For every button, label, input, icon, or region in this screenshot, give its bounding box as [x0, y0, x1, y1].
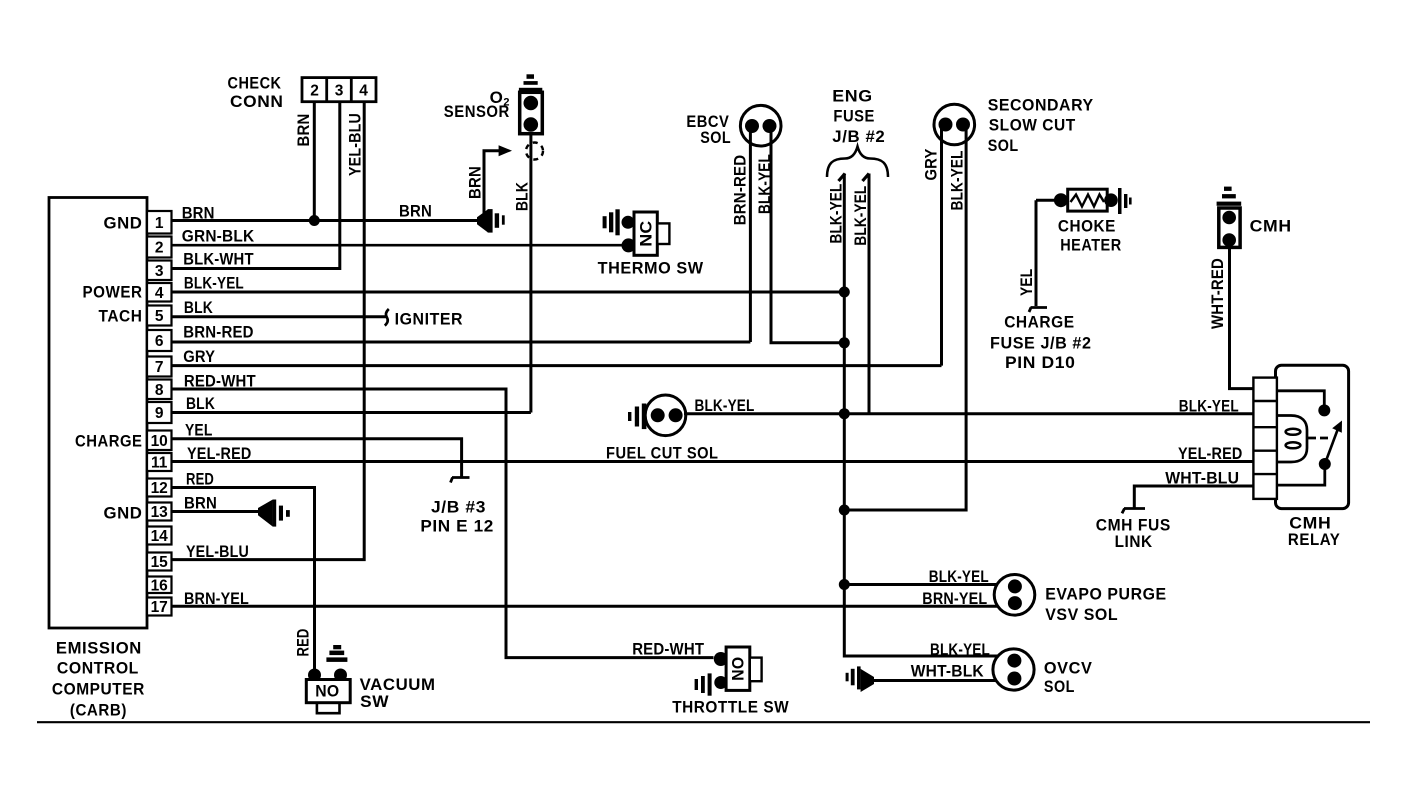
- wire EBCV BRN-RED down to pin6: [732, 126, 751, 342]
- pin 3: [147, 261, 172, 281]
- pin 1: [147, 211, 172, 234]
- wire SSC GRY down to pin7: [923, 126, 942, 366]
- svg-text:CONN: CONN: [230, 92, 284, 111]
- svg-text:EMISSION: EMISSION: [56, 639, 142, 658]
- ENG FUSE arrow 1: [839, 174, 846, 182]
- svg-text:6: 6: [155, 333, 164, 350]
- pin 14: [147, 527, 172, 546]
- wire WHT-BLU to relay: [1134, 470, 1253, 509]
- svg-text:NO: NO: [730, 657, 748, 681]
- O2 sensor ground: [519, 74, 542, 91]
- wire O2 BRN to pin1 ground: [467, 151, 500, 214]
- svg-text:BLK-YEL: BLK-YEL: [1179, 398, 1239, 416]
- svg-text:CHARGE: CHARGE: [75, 432, 143, 451]
- svg-text:BLK: BLK: [184, 299, 213, 317]
- pin 5: [147, 306, 172, 326]
- relay lower contact and switch arm: [1277, 421, 1342, 486]
- svg-text:CHOKE: CHOKE: [1058, 217, 1116, 236]
- svg-text:COMPUTER: COMPUTER: [52, 680, 145, 699]
- svg-text:7: 7: [155, 359, 164, 376]
- svg-text:SW: SW: [360, 692, 389, 711]
- svg-text:5: 5: [155, 308, 164, 325]
- svg-text:BLK-YEL: BLK-YEL: [756, 154, 774, 214]
- svg-text:14: 14: [151, 528, 169, 545]
- svg-text:YEL: YEL: [1018, 269, 1036, 297]
- pin 16: [147, 577, 172, 595]
- pin 10: [147, 431, 172, 451]
- J/B 3 terminal: [420, 478, 494, 536]
- igniter terminal: [385, 309, 463, 329]
- svg-text:LINK: LINK: [1115, 532, 1153, 551]
- ENG FUSE J/B 2 label: [832, 87, 885, 146]
- CMH fusible link terminal CMH FUS LINK: [1096, 509, 1171, 552]
- wire pin1 BRN: [172, 203, 480, 223]
- svg-text:9: 9: [155, 405, 164, 422]
- ENG FUSE brace: [827, 147, 888, 178]
- wire pin5 BLK (to igniter): [172, 299, 387, 317]
- wire EBCV BLK-YEL down to bus: [756, 126, 844, 343]
- ground at end of pin13 BRN wire: [258, 500, 290, 527]
- svg-text:CMH: CMH: [1250, 217, 1292, 236]
- node: junction bus / fuel cut: [839, 408, 850, 419]
- wire check conn pin2 BRN: [295, 102, 314, 221]
- wire pin13 BRN (to ground): [172, 495, 260, 513]
- svg-text:BLK-WHT: BLK-WHT: [183, 251, 254, 269]
- svg-text:BRN: BRN: [295, 114, 313, 147]
- svg-text:J/B #2: J/B #2: [832, 127, 885, 146]
- svg-text:BRN-YEL: BRN-YEL: [184, 590, 249, 608]
- pin 4: [147, 283, 172, 302]
- wire BLK-YEL to evapo: [844, 568, 998, 586]
- svg-text:PIN E 12: PIN E 12: [420, 517, 494, 536]
- CMH relay connector strip: [1253, 378, 1277, 499]
- wire pin17 BRN-YEL: [172, 590, 1000, 608]
- svg-text:BRN: BRN: [399, 203, 432, 221]
- svg-text:NC: NC: [638, 221, 656, 247]
- svg-text:17: 17: [151, 599, 168, 616]
- wire YEL-RED label near relay: [1178, 445, 1243, 463]
- svg-text:BRN: BRN: [182, 204, 215, 222]
- svg-text:BRN-RED: BRN-RED: [183, 324, 254, 342]
- relay upper contact: [1318, 404, 1330, 416]
- svg-text:NO: NO: [315, 683, 339, 701]
- svg-text:BLK-YEL: BLK-YEL: [929, 568, 989, 586]
- svg-text:(CARB): (CARB): [70, 701, 127, 720]
- svg-text:BLK-YEL: BLK-YEL: [852, 186, 870, 246]
- svg-text:4: 4: [155, 285, 164, 302]
- O2 sensor U-A: [444, 88, 543, 134]
- svg-text:2: 2: [155, 240, 164, 257]
- svg-text:YEL-BLU: YEL-BLU: [186, 543, 249, 561]
- svg-text:RED-WHT: RED-WHT: [184, 373, 256, 391]
- svg-text:BLK-YEL: BLK-YEL: [949, 150, 967, 210]
- svg-text:SENSOR: SENSOR: [444, 102, 510, 121]
- fuel cut solenoid FUEL CUT SOL: [606, 395, 719, 463]
- svg-text:2: 2: [310, 83, 319, 100]
- svg-text:OVCV: OVCV: [1044, 659, 1093, 678]
- CMH sensor: [1219, 208, 1292, 247]
- wire pin7 GRY: [172, 348, 942, 366]
- relay coil: [1277, 416, 1307, 463]
- wire RED label (vacuum): [294, 629, 312, 657]
- wire bus BLK-YEL 2 (eng fuse right): [852, 174, 870, 414]
- node: junction bus / evapo branch: [839, 579, 850, 590]
- pin 9: [147, 402, 172, 423]
- relay dashed link: [1308, 437, 1329, 440]
- ground at end of pin1 BRN wire: [477, 209, 505, 233]
- fuel cut solenoid ground: [628, 404, 646, 430]
- svg-text:FUSE: FUSE: [833, 107, 875, 126]
- choke heater CHOKE HEATER: [1036, 188, 1132, 255]
- vacuum switch VACUUM SW: [306, 669, 435, 714]
- pin 17: [147, 598, 172, 617]
- svg-text:BLK: BLK: [186, 395, 215, 413]
- OVCV ground: [846, 666, 874, 692]
- wire WHT-BLK to OVCV: [874, 663, 997, 681]
- svg-text:3: 3: [155, 263, 164, 280]
- svg-text:RED: RED: [186, 471, 214, 489]
- vacuum switch ground: [326, 645, 347, 662]
- svg-text:1: 1: [155, 215, 164, 232]
- svg-text:YEL: YEL: [185, 422, 213, 440]
- evapo purge solenoid EVAPO PURGE VSV SOL: [994, 575, 1166, 625]
- svg-text:4: 4: [359, 83, 368, 100]
- svg-text:PIN D10: PIN D10: [1005, 353, 1076, 372]
- wire pin4 BLK-YEL: [172, 275, 845, 293]
- pin 7: [147, 357, 172, 377]
- CMH ground: [1217, 187, 1242, 206]
- svg-text:3: 3: [335, 83, 344, 100]
- svg-text:CONTROL: CONTROL: [57, 659, 139, 678]
- throttle switch THROTTLE SW: [672, 647, 789, 717]
- svg-text:WHT-BLU: WHT-BLU: [1165, 470, 1239, 488]
- wire pin9 BLK: [172, 395, 531, 413]
- node: junction bus / SSC branch: [839, 505, 850, 516]
- EBCV solenoid EBCV SOL: [686, 105, 781, 147]
- wire pin3 BLK-WHT: [172, 102, 340, 269]
- svg-text:WHT-BLK: WHT-BLK: [911, 663, 984, 681]
- svg-text:BRN: BRN: [467, 166, 485, 199]
- svg-text:HEATER: HEATER: [1060, 236, 1122, 255]
- svg-text:BLK-YEL: BLK-YEL: [184, 275, 244, 293]
- CMH relay body: [1276, 365, 1349, 549]
- secondary slow cut solenoid SECONDARY SLOW CUT SOL: [934, 96, 1094, 156]
- wire check conn pin4 YEL-BLU label: [347, 113, 365, 176]
- svg-text:BLK-YEL: BLK-YEL: [695, 397, 755, 415]
- svg-text:BRN-YEL: BRN-YEL: [922, 590, 987, 608]
- wire BLK-YEL fuel cut sol to relay: [684, 397, 1253, 416]
- wire pin12 RED (to vacuum sw): [172, 471, 315, 670]
- svg-text:13: 13: [151, 504, 169, 521]
- wire RED-WHT label (throttle): [632, 641, 704, 659]
- wire bus down to OVCV BLK-YEL: [844, 585, 998, 660]
- thermo switch ground: [603, 209, 620, 235]
- svg-text:16: 16: [151, 577, 169, 594]
- pin 12: [147, 479, 172, 498]
- thermo switch THERMO SW: [598, 212, 704, 278]
- wire pin10 YEL (to J/B 3): [172, 422, 462, 478]
- wire O2 BLK down to pin9: [514, 134, 532, 413]
- check connector CHECK CONN: [228, 74, 377, 112]
- svg-text:BLK-YEL: BLK-YEL: [828, 184, 846, 244]
- svg-text:GRY: GRY: [183, 348, 215, 366]
- pin 15: [147, 553, 172, 572]
- svg-text:GRN-BLK: GRN-BLK: [182, 227, 255, 245]
- svg-text:11: 11: [151, 455, 168, 472]
- wire CMH WHT-RED down to relay: [1209, 247, 1254, 388]
- svg-text:BLK: BLK: [514, 182, 532, 211]
- svg-text:WHT-RED: WHT-RED: [1209, 258, 1227, 329]
- charge fuse terminal: [990, 308, 1092, 373]
- svg-text:CHECK: CHECK: [228, 74, 282, 93]
- wire pin2 GRN-BLK: [172, 227, 624, 245]
- svg-text:EVAPO PURGE: EVAPO PURGE: [1045, 585, 1167, 604]
- svg-text:15: 15: [151, 554, 169, 571]
- wire SSC BLK-YEL down to bus junction: [844, 126, 966, 510]
- ENG FUSE arrow 2: [863, 174, 870, 182]
- svg-text:YEL-RED: YEL-RED: [1178, 445, 1243, 463]
- node: junction bus / pin4: [839, 287, 850, 298]
- svg-text:SLOW CUT: SLOW CUT: [989, 116, 1076, 135]
- relay internal wire pin1 to upper contact: [1277, 391, 1324, 405]
- ECU box (emission control computer): [49, 198, 147, 720]
- svg-text:GND: GND: [104, 504, 143, 523]
- svg-text:GND: GND: [104, 214, 143, 233]
- svg-text:POWER: POWER: [83, 283, 143, 302]
- svg-text:VSV SOL: VSV SOL: [1045, 605, 1118, 624]
- wire bus BLK-YEL 1 (eng fuse left): [828, 174, 846, 585]
- svg-text:BRN-RED: BRN-RED: [732, 155, 750, 226]
- pin 8: [147, 380, 172, 400]
- svg-text:YEL-BLU: YEL-BLU: [347, 113, 365, 176]
- svg-text:SOL: SOL: [1044, 677, 1075, 696]
- svg-text:10: 10: [151, 433, 168, 450]
- node: junction BRN / check conn: [309, 215, 320, 226]
- svg-text:THERMO SW: THERMO SW: [598, 259, 704, 278]
- svg-text:BLK-YEL: BLK-YEL: [930, 641, 990, 659]
- svg-text:J/B #3: J/B #3: [431, 498, 486, 517]
- wire BRN-YEL label (evapo): [922, 590, 987, 608]
- svg-text:SOL: SOL: [700, 128, 731, 147]
- pin 13: [147, 503, 172, 522]
- wire pin6 BRN-RED: [172, 324, 751, 343]
- wire pin15 YEL-BLU: [172, 102, 365, 561]
- node: junction bus / EBCV: [839, 337, 850, 348]
- svg-text:RED-WHT: RED-WHT: [632, 641, 704, 659]
- throttle switch ground: [695, 673, 712, 695]
- svg-text:8: 8: [155, 382, 164, 399]
- svg-text:SECONDARY: SECONDARY: [988, 96, 1094, 115]
- svg-text:RED: RED: [294, 629, 312, 657]
- svg-text:ENG: ENG: [832, 87, 873, 106]
- svg-text:TACH: TACH: [99, 307, 143, 326]
- pin 6: [147, 330, 172, 351]
- bottom rule: [37, 721, 1370, 723]
- svg-text:CHARGE: CHARGE: [1004, 313, 1074, 332]
- svg-text:IGNITER: IGNITER: [395, 310, 464, 329]
- svg-text:12: 12: [151, 480, 168, 497]
- OVCV solenoid OVCV SOL: [993, 649, 1093, 696]
- pin 2: [147, 237, 172, 258]
- svg-text:BRN: BRN: [184, 495, 217, 513]
- svg-text:FUEL CUT SOL: FUEL CUT SOL: [606, 444, 719, 463]
- O2 connector (dashed): [499, 143, 543, 160]
- svg-text:GRY: GRY: [923, 149, 941, 181]
- wire choke YEL down to charge fuse: [1018, 200, 1036, 306]
- wire pin8 RED-WHT: [172, 373, 714, 658]
- svg-text:RELAY: RELAY: [1288, 530, 1341, 549]
- svg-text:SOL: SOL: [988, 136, 1019, 155]
- svg-text:THROTTLE SW: THROTTLE SW: [672, 698, 789, 717]
- svg-text:YEL-RED: YEL-RED: [187, 445, 252, 463]
- pin 11: [147, 453, 172, 472]
- svg-text:FUSE J/B #2: FUSE J/B #2: [990, 334, 1092, 353]
- wire pin11 YEL-RED: [172, 445, 1254, 463]
